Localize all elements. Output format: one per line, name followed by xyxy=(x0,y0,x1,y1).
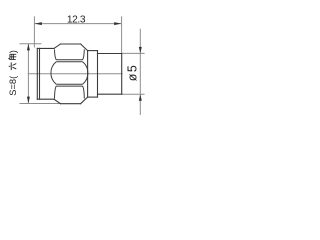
svg-text:S=8(: S=8( xyxy=(8,75,18,96)
svg-text:): ) xyxy=(8,50,18,53)
svg-text:12.3: 12.3 xyxy=(67,15,86,26)
svg-text:ø5: ø5 xyxy=(125,64,139,82)
